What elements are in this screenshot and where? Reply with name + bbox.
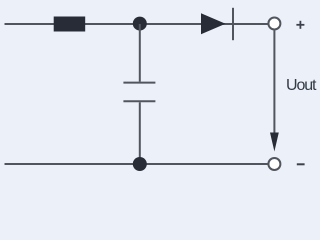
capacitor	[123, 83, 155, 102]
label +	[296, 21, 304, 29]
wire bottom rail	[5, 163, 269, 165]
label -	[297, 163, 305, 165]
diode	[201, 8, 233, 40]
arrow Uout direction	[270, 133, 279, 152]
wire top rail	[5, 23, 269, 25]
node bottom junction	[133, 157, 147, 171]
terminal + (top right)	[268, 18, 280, 30]
node top junction	[133, 17, 147, 31]
wire capacitor bottom lead	[139, 102, 141, 164]
svg-text:Uout: Uout	[286, 77, 317, 94]
wire capacitor top lead	[139, 24, 141, 82]
terminal - (bottom right)	[268, 158, 280, 170]
wire output arrow line	[273, 31, 275, 137]
resistor	[54, 17, 85, 32]
